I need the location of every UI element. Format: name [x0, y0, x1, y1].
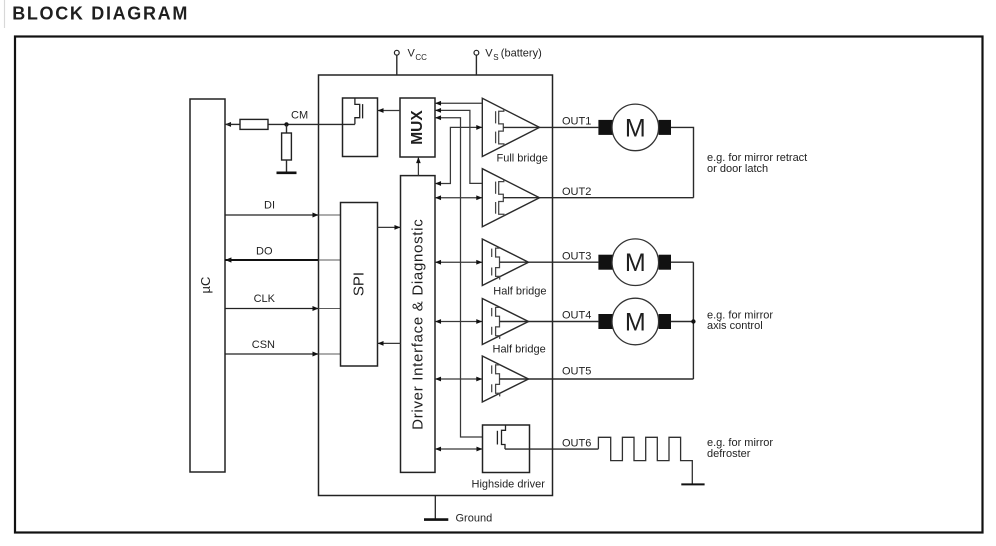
wire MUX sense OUT1 [435, 101, 482, 106]
chip boundary (main IC) [319, 75, 553, 496]
motor M1 [598, 104, 671, 151]
svg-text:V: V [485, 48, 493, 60]
block Driver Interface & Diagnostic [401, 176, 436, 473]
svg-text:V: V [408, 48, 416, 60]
svg-text:OUT4: OUT4 [562, 310, 591, 322]
svg-text:M: M [625, 309, 646, 337]
wire OUT6 [505, 448, 598, 450]
wire OUT5 [500, 378, 694, 380]
svg-text:MUX: MUX [409, 110, 426, 145]
wire MUX sense OUT2 [435, 108, 482, 183]
supply VS (battery) [474, 48, 542, 75]
square wave (defroster load) [598, 437, 692, 484]
wire MUX to CM block [378, 108, 401, 113]
svg-text:CM: CM [291, 110, 308, 122]
wire motor M2 to bus [671, 261, 693, 263]
wire DI [225, 200, 341, 218]
ground (CM divider) [277, 172, 297, 175]
wire DO [225, 246, 341, 263]
wire DI&D T5 (bidirectional) [435, 377, 482, 382]
ground (defroster) [681, 483, 704, 485]
svg-text:axis control: axis control [707, 320, 763, 332]
svg-text:S: S [493, 53, 498, 62]
node CM junction [284, 122, 288, 126]
resistor R1 (series, horizontal) [240, 119, 268, 129]
ground (chip) [424, 518, 448, 521]
supply VCC [394, 48, 427, 75]
wire motor M1 to OUT2 [671, 127, 694, 197]
svg-text:Highside driver: Highside driver [472, 479, 546, 491]
op-amp driver T4 (half bridge) [482, 299, 528, 345]
wire OUT4 [500, 321, 599, 323]
wire CSN [225, 339, 341, 356]
microcontroller µC [190, 99, 225, 472]
wire DI&D T2 (bidirectional) [435, 195, 482, 200]
svg-text:CC: CC [415, 53, 427, 62]
op-amp driver T2 (full bridge low) [482, 169, 539, 227]
wire motor M3 to bus [671, 321, 693, 323]
svg-text:OUT1: OUT1 [562, 116, 591, 128]
wire DI&D T4 (bidirectional) [435, 319, 482, 324]
wire chip ground [434, 496, 436, 520]
svg-text:OUT3: OUT3 [562, 250, 591, 262]
page edge artifact [4, 0, 6, 28]
svg-text:Driver Interface & Diagnostic: Driver Interface & Diagnostic [409, 219, 426, 430]
svg-text:M: M [625, 114, 646, 142]
resistor R2 (to ground, vertical) [282, 133, 292, 160]
svg-text:Full bridge: Full bridge [497, 153, 548, 165]
wire SPI to DI&D [378, 225, 401, 230]
svg-text:CSN: CSN [252, 339, 275, 351]
op-amp driver T3 (half bridge) [482, 239, 528, 286]
wire DI&D to MUX [416, 157, 421, 176]
svg-text:OUT6: OUT6 [562, 437, 591, 449]
svg-text:OUT5: OUT5 [562, 366, 591, 378]
transistor (highside driver) [497, 425, 505, 449]
svg-text:(battery): (battery) [501, 48, 542, 60]
svg-text:defroster: defroster [707, 448, 751, 460]
wire R2 to ground [286, 160, 288, 172]
svg-text:SPI: SPI [350, 272, 367, 296]
svg-text:Ground: Ground [456, 512, 493, 524]
wire DI&D drive full bridge 1 [435, 125, 482, 186]
wire to R2 [286, 124, 288, 133]
block MUX [400, 98, 435, 157]
svg-text:OUT2: OUT2 [562, 186, 591, 198]
wire DI&D to SPI [378, 341, 401, 346]
svg-text:BLOCK DIAGRAM: BLOCK DIAGRAM [12, 4, 189, 24]
wire OUT3 [500, 261, 599, 263]
wire OUT2 [503, 197, 693, 199]
op-amp driver T1 (full bridge high) [482, 98, 539, 156]
wire CM [225, 122, 355, 127]
svg-text:Half bridge: Half bridge [493, 286, 546, 298]
wire bus OUT3-OUT5 [692, 262, 694, 379]
svg-text:CLK: CLK [254, 293, 276, 305]
op-amp driver T5 (half bridge) [482, 356, 528, 402]
svg-text:M: M [625, 249, 646, 277]
transistor (CM monitor block) [355, 98, 363, 124]
wire DI&D highside driver (bidirectional) [435, 447, 483, 452]
wire OUT1 [503, 126, 598, 128]
svg-text:DI: DI [264, 200, 275, 212]
svg-text:µC: µC [198, 277, 213, 294]
node bus junction [691, 319, 695, 323]
block SPI [341, 203, 378, 367]
motor M3 [598, 298, 671, 345]
wire DI&D T3 (bidirectional) [435, 260, 482, 265]
svg-text:Half bridge: Half bridge [493, 344, 546, 356]
motor M2 [598, 239, 671, 286]
svg-text:or door latch: or door latch [707, 163, 768, 175]
wire CLK [225, 293, 341, 311]
block Highside driver [483, 425, 530, 473]
wire MUX sense highside [435, 115, 483, 437]
svg-text:DO: DO [256, 246, 273, 258]
block CM monitor [343, 98, 378, 157]
